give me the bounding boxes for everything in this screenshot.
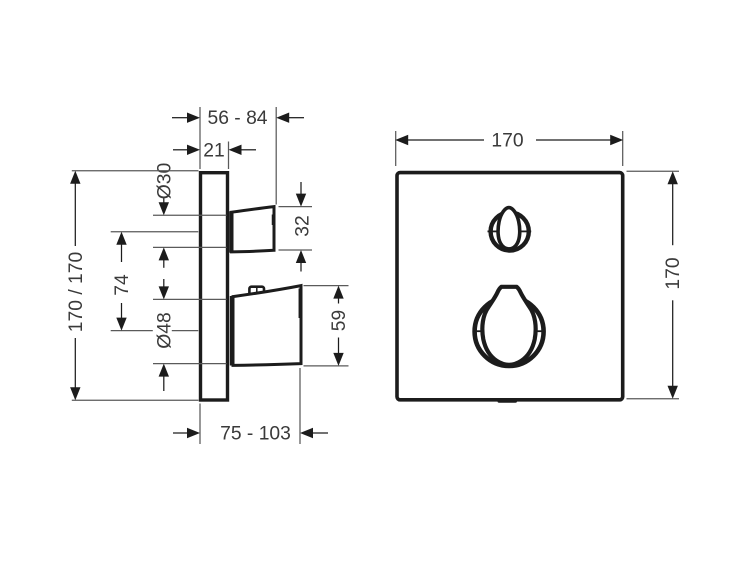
svg-text:59: 59 — [329, 310, 350, 331]
ext line bottom y247.4 — [153, 246, 227, 248]
arrow + tail right — [300, 428, 328, 438]
ext line bottom y398.7 — [627, 398, 680, 400]
svg-text:170: 170 — [663, 257, 684, 289]
small knob side ticks — [488, 230, 498, 232]
wall plate (side view) — [201, 173, 228, 400]
large knob (side view) body — [233, 286, 301, 366]
ext line top y206.6 — [279, 206, 313, 208]
small knob egg grip — [498, 208, 520, 249]
bottom centre tab — [498, 399, 518, 403]
ext line bottom y250 — [279, 249, 313, 251]
ext line top y299.4 — [153, 298, 227, 300]
large knob inner edge line — [298, 289, 300, 319]
ext line right x276 — [275, 107, 277, 205]
centre line large knob y330.6 — [111, 330, 153, 332]
ext line left x200 — [199, 404, 201, 445]
svg-text:21: 21 — [203, 140, 224, 161]
large knob (side view) grip tab — [249, 287, 264, 297]
ext line bottom y400.3 — [72, 399, 199, 401]
dim line with arrows — [395, 135, 484, 145]
dim line with arrows — [116, 232, 126, 262]
svg-text:56 - 84: 56 - 84 — [207, 108, 267, 129]
svg-text:170: 170 — [491, 131, 523, 152]
large knob (front) outer ring — [475, 297, 544, 366]
arrow + tail left — [172, 113, 200, 123]
centre line small knob y231.7 — [111, 231, 199, 233]
arrow up — [159, 364, 169, 391]
ext line right x300 — [299, 368, 301, 444]
large knob teardrop grip — [482, 287, 535, 365]
escutcheon plate (front view) — [397, 173, 623, 400]
large knob thick base bar — [230, 296, 235, 366]
svg-text:75 - 103: 75 - 103 — [220, 424, 291, 445]
svg-text:Ø30: Ø30 — [154, 163, 175, 199]
ext line bottom y365.9 — [304, 365, 349, 367]
dim line with arrows — [668, 171, 678, 245]
ext line left x395.7 — [395, 131, 397, 166]
arrow down — [159, 198, 169, 216]
ext line right x228.5 — [228, 142, 230, 170]
ext line right x622.7 — [622, 131, 624, 166]
svg-text:Ø48: Ø48 — [154, 312, 175, 348]
arrow + tail right — [229, 145, 257, 155]
ext line top y171.2 — [627, 170, 680, 172]
ext line top y170.7 — [72, 170, 199, 172]
small knob (front) outer ring — [491, 212, 529, 250]
ext line left x200 — [199, 107, 201, 169]
ext line top y215.2 — [153, 214, 227, 216]
svg-text:74: 74 — [112, 274, 133, 296]
arrow + tail left — [173, 428, 200, 438]
small knob inner edge line — [271, 215, 273, 226]
svg-text:32: 32 — [293, 215, 314, 236]
small knob (side view) body — [232, 207, 275, 252]
arrow + tail right — [276, 113, 304, 123]
arrow up — [159, 247, 169, 267]
svg-text:170 / 170: 170 / 170 — [66, 252, 87, 332]
dim line with arrows — [70, 171, 80, 246]
large knob side ticks — [474, 330, 484, 332]
large knob grip tab divider — [256, 287, 258, 296]
dim line with arrows — [333, 286, 343, 304]
arrow up — [296, 250, 306, 272]
small knob thick base bar — [229, 211, 233, 253]
ext line top y285.6 — [304, 285, 349, 287]
ext line bottom y363.6 — [153, 363, 227, 365]
arrow down — [159, 279, 169, 299]
arrow + tail left — [173, 145, 200, 155]
arrow down — [296, 182, 306, 207]
